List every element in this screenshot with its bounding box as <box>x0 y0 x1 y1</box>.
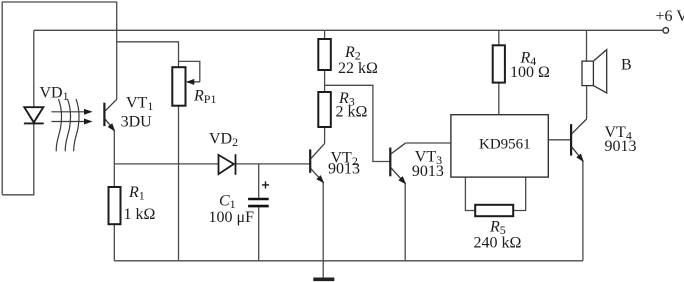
wire speaker bottom to VT4 collector <box>586 86 588 119</box>
wire VT3 emitter to rail <box>404 183 406 260</box>
wire VT1 emitter down to R1 <box>113 130 115 187</box>
wire VT4 emitter down then rail end <box>582 161 584 261</box>
resistor R3 <box>318 92 331 127</box>
wire R2 top to rail <box>324 30 326 39</box>
svg-text:22 kΩ: 22 kΩ <box>338 60 378 77</box>
svg-text:RP1: RP1 <box>193 88 216 107</box>
resistor R1 <box>109 187 121 224</box>
svg-text:9013: 9013 <box>412 163 444 180</box>
wire R5 right leg <box>513 177 526 210</box>
wire R2 to R3 <box>324 70 326 92</box>
svg-text:VD2: VD2 <box>209 131 238 150</box>
wire VD2 cathode to VT2 base <box>236 163 311 165</box>
wire ground stub <box>322 261 324 278</box>
wire R4 bottom to KD9561 <box>498 83 500 115</box>
svg-text:9013: 9013 <box>605 138 637 155</box>
svg-text:9013: 9013 <box>328 161 360 178</box>
wire branch R2R3 node to VT3 base <box>325 85 391 161</box>
wire emitter node to VD2 anode <box>114 163 218 165</box>
potentiometer RP1 <box>172 67 200 106</box>
svg-text:100 μF: 100 μF <box>209 209 255 226</box>
wire C1 top <box>258 164 260 198</box>
wire VT3 collector to KD9561 pin <box>405 142 451 144</box>
speaker B <box>582 50 607 93</box>
wire RP1 wiper hook <box>179 61 200 81</box>
wire VD1 anode up to top rail <box>33 30 35 107</box>
node +6V terminal <box>663 28 669 34</box>
wire branch to RP1 top <box>117 42 179 67</box>
wire bottom ground rail <box>114 260 583 262</box>
diode VD1 (photodiode) <box>24 107 44 123</box>
diode VD2 <box>219 154 236 175</box>
svg-text:R1: R1 <box>128 184 145 203</box>
capacitor C1 <box>248 199 269 206</box>
wire outer top-left loop <box>2 2 117 195</box>
svg-text:+6 V: +6 V <box>656 8 684 25</box>
wire KD9561 right pin to VT4 base <box>548 139 571 141</box>
wire RP1 bottom to ground rail <box>178 106 180 261</box>
ground <box>313 277 334 281</box>
svg-text:1 kΩ: 1 kΩ <box>124 206 156 223</box>
resistor R4 <box>493 45 505 82</box>
wire R4 top to rail <box>498 30 500 45</box>
svg-text:VT1: VT1 <box>126 94 153 113</box>
svg-text:240 kΩ: 240 kΩ <box>474 235 522 252</box>
light rays into VT1 <box>52 99 92 151</box>
transistor VT1 (3DU phototransistor) <box>104 99 116 130</box>
IC U1 KD9561 <box>451 115 548 177</box>
wire R3 bottom to VT2 collector <box>324 127 326 144</box>
C1 plus sign <box>262 181 269 188</box>
transistor VT4 <box>571 119 587 161</box>
wire R1 bottom to rail <box>113 224 115 261</box>
svg-text:3DU: 3DU <box>121 114 153 131</box>
svg-text:100 Ω: 100 Ω <box>510 64 550 81</box>
wire VT1 collector vertical <box>116 30 118 99</box>
resistor R5 <box>475 205 513 216</box>
wire bottom of left loop <box>2 123 34 195</box>
wire R5 left leg <box>465 177 475 210</box>
svg-text:2 kΩ: 2 kΩ <box>336 104 368 121</box>
wire VT2 emitter to ground rail <box>322 182 324 260</box>
wire speaker top to rail <box>586 30 588 61</box>
wire C1 bottom to rail <box>258 207 260 260</box>
wire top supply rail +6V <box>34 29 663 31</box>
svg-text:KD9561: KD9561 <box>479 136 531 152</box>
svg-text:VD1: VD1 <box>40 85 69 104</box>
transistor VT2 <box>310 144 324 183</box>
resistor R2 <box>318 39 331 70</box>
transistor VT3 <box>390 143 405 183</box>
svg-text:B: B <box>621 57 632 74</box>
